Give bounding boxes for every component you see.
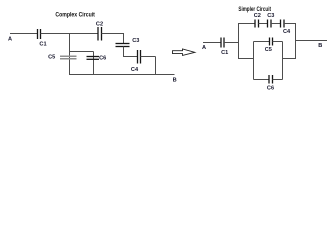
left vertical wire [238, 24, 240, 60]
arrow between circuits [173, 49, 195, 55]
svg-text:C6: C6 [99, 55, 106, 61]
wire parallel branch top [70, 51, 94, 53]
wire C3 down to C4 branch [123, 47, 125, 58]
capacitor C5 [48, 55, 76, 61]
capacitor C4 [281, 20, 292, 36]
svg-text:A: A [8, 36, 12, 42]
capacitor C2 [254, 13, 261, 28]
svg-text:C4: C4 [283, 29, 291, 35]
svg-text:B: B [173, 78, 177, 84]
svg-text:B: B [318, 43, 322, 49]
capacitor C3 [267, 13, 274, 28]
svg-text:C2: C2 [254, 13, 261, 19]
capacitor C6 [87, 55, 107, 61]
wire down to C3 [123, 33, 125, 44]
capacitor C5 [265, 38, 273, 54]
wire A to C1 [10, 33, 38, 35]
wire A to C1 [203, 42, 221, 44]
wire C1 to C2 [41, 33, 99, 35]
wire corner to C4 [123, 56, 138, 58]
svg-text:C3: C3 [132, 38, 139, 44]
node junction vertical from main wire [69, 33, 71, 75]
wire C1 to left node [224, 42, 239, 44]
wire parallel branch right vertical [93, 52, 95, 75]
top wire segment 3 [271, 23, 281, 25]
top wire segment 2 [259, 23, 268, 25]
svg-text:C3: C3 [267, 13, 274, 19]
wire down right side [155, 57, 157, 75]
inner box top wire right [273, 41, 283, 43]
inner box bottom wire left [254, 79, 270, 81]
svg-text:C5: C5 [48, 55, 55, 61]
wire C2 to top-right corner [102, 33, 124, 35]
capacitor C6 [267, 75, 274, 92]
capacitor C1 [221, 38, 228, 56]
svg-text:Complex Circuit: Complex Circuit [55, 11, 95, 18]
bottom wire [69, 74, 175, 76]
top wire segment 4 [284, 23, 296, 25]
capacitor C1 [38, 29, 47, 47]
svg-text:C6: C6 [267, 86, 274, 92]
inner box top wire left [254, 41, 270, 43]
wire C4 to right corner [141, 56, 156, 58]
svg-text:Simpler Circuit: Simpler Circuit [238, 6, 271, 13]
svg-text:C2: C2 [96, 22, 103, 28]
right jog wire [283, 58, 296, 60]
capacitor C2 [96, 22, 103, 41]
wire to B [296, 40, 328, 42]
svg-text:C5: C5 [265, 47, 272, 53]
capacitor C3 [116, 38, 140, 46]
svg-text:C1: C1 [221, 50, 228, 56]
right vertical wire [295, 24, 297, 60]
svg-text:C4: C4 [131, 67, 139, 73]
left jog wire [239, 58, 254, 60]
inner box left vertical [253, 42, 255, 80]
capacitor C4 [131, 50, 141, 73]
top wire segment 1 [238, 23, 255, 25]
svg-text:C1: C1 [39, 41, 46, 47]
inner box bottom wire right [273, 79, 283, 81]
svg-text:A: A [202, 45, 206, 51]
inner box right vertical [282, 42, 284, 80]
